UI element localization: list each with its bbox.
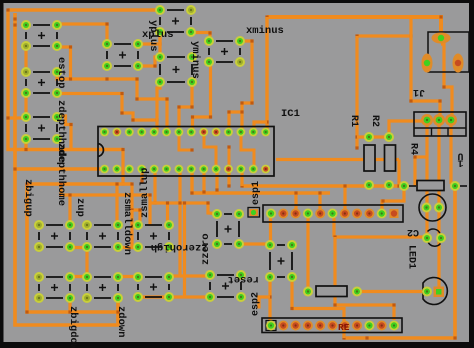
push button S1 estop (21, 20, 62, 51)
wire IC internal (204, 132, 216, 169)
wire IC stub (215, 169, 218, 190)
wire long drop (178, 203, 181, 276)
resistor R3 (303, 286, 362, 297)
connector J1 (422, 32, 470, 73)
junction (453, 336, 456, 339)
wire left rail 3 (27, 184, 118, 312)
wire link (169, 295, 210, 298)
svg-text:R1: R1 (348, 115, 359, 127)
junction (209, 115, 212, 118)
svg-text:IC1: IC1 (281, 108, 300, 120)
svg-text:zup: zup (74, 198, 86, 217)
push button S9 zup (82, 220, 123, 252)
wire chain (85, 248, 88, 277)
junction (355, 34, 358, 37)
junction (442, 85, 445, 88)
junction (158, 42, 161, 45)
wire to IC pin (179, 82, 192, 132)
wire stub to pad (8, 116, 26, 119)
svg-text:yplus: yplus (147, 20, 159, 52)
resistor R2 (384, 132, 396, 190)
wire to RE header (335, 237, 394, 320)
wire drop to rail (121, 150, 124, 185)
wire top rail to J1 (267, 17, 441, 36)
wire esp1 stub (294, 193, 297, 209)
wire to IC pin (193, 62, 211, 132)
junction (121, 148, 124, 151)
junction (265, 120, 268, 123)
push button S2 (21, 67, 62, 98)
svg-text:xminus: xminus (246, 25, 284, 37)
junction (105, 22, 108, 25)
IC IC1 DIP-28 outline (98, 127, 274, 177)
wire to C3 (335, 235, 425, 238)
wire estop to xplus (57, 24, 107, 44)
junction (413, 155, 416, 158)
push button S7 xminus (204, 36, 245, 67)
wire left rail under IC (8, 10, 123, 150)
junction (268, 295, 271, 298)
junction (227, 110, 230, 113)
junction (202, 190, 205, 193)
wire link (138, 295, 169, 298)
wire IC internal (241, 135, 254, 169)
push button S11 zzerohigh (212, 209, 244, 249)
junction (409, 99, 412, 102)
wire xplus-yplus (138, 33, 160, 44)
wire to IC pin (57, 74, 167, 132)
wire to esp1 (382, 186, 404, 209)
junction (240, 110, 243, 113)
wire pad chain (24, 94, 27, 117)
junction (140, 179, 143, 182)
junction (120, 92, 123, 95)
header ESP1 (248, 205, 403, 222)
junction (208, 31, 211, 34)
junction (183, 201, 186, 204)
junction (120, 111, 123, 114)
junction (166, 201, 169, 204)
wire U1 pin1 to C2 C3 (425, 121, 428, 238)
junction (13, 167, 16, 170)
junction (392, 303, 395, 306)
svg-text:LED1: LED1 (406, 245, 417, 269)
wire R3 to LED1 (357, 290, 424, 293)
junction (177, 105, 180, 108)
junction (402, 184, 405, 187)
junction (355, 146, 358, 149)
junction (138, 208, 141, 211)
junction (153, 64, 156, 67)
LED LED1 (422, 278, 447, 305)
wire drop (115, 184, 118, 225)
R4 left lead tick (409, 185, 416, 187)
wire esp1 stub (318, 193, 321, 209)
junction (25, 310, 28, 313)
junction (190, 148, 193, 151)
capacitor C2 (419, 194, 446, 221)
wire esp btn to RE pin1 (268, 277, 271, 322)
junction (343, 184, 346, 187)
junction (294, 191, 297, 194)
junction (365, 336, 368, 339)
wire xminus to IC (240, 41, 252, 132)
junction (318, 191, 321, 194)
junction (13, 17, 16, 20)
wire link (70, 275, 87, 278)
svg-text:zbigdow: zbigdow (67, 306, 79, 348)
wire (357, 34, 411, 37)
junction (6, 8, 9, 11)
wire stub (259, 297, 270, 309)
push button S10 zsmallup (133, 220, 174, 252)
wire J1 to U1 pin3 (441, 44, 452, 120)
R4 lead tick (460, 185, 467, 187)
svg-text:C2: C2 (407, 226, 419, 237)
junction (165, 97, 168, 100)
junction (342, 336, 345, 339)
junction (240, 184, 243, 187)
wire R1 R2 tops (357, 135, 389, 138)
junction (215, 188, 218, 191)
junction (153, 201, 156, 204)
junction (121, 182, 124, 185)
svg-text:esp2: esp2 (251, 292, 262, 316)
wire esp1 stub down (332, 218, 335, 237)
wire (229, 112, 242, 132)
wire R4 feed (413, 157, 416, 186)
junction (69, 123, 72, 126)
push button S12 zbigdown (34, 272, 75, 303)
junction (178, 201, 181, 204)
wire IC internal (179, 132, 192, 150)
push button S4 xplus (102, 39, 143, 71)
svg-text:zdepthhome: zdepthhome (55, 143, 67, 206)
junction (6, 116, 9, 119)
wire rail y193 (192, 169, 330, 193)
junction (227, 184, 230, 187)
junction (397, 184, 400, 187)
junction (68, 193, 71, 196)
svg-text:zdown: zdown (115, 306, 127, 338)
wire IC stub (140, 169, 143, 181)
wire pad chain (24, 47, 27, 72)
junction (333, 303, 336, 306)
wire IC stub (227, 169, 230, 186)
wire IC stub (178, 169, 181, 203)
wire to IC pin (57, 94, 157, 121)
push button S14 zsmalldown (133, 272, 174, 302)
wire (57, 47, 71, 79)
resistor R1 (364, 132, 375, 190)
resistor R4 (399, 181, 460, 192)
wire right+bottom rail (344, 186, 455, 338)
wire link (70, 246, 87, 249)
junction (116, 310, 119, 313)
regulator U1 (414, 112, 466, 136)
wire rail left (61, 195, 150, 226)
junction (131, 118, 134, 121)
push button S15 reset (205, 270, 246, 302)
wire drop (132, 184, 140, 225)
wire drop to IC pin (265, 17, 268, 132)
junction (439, 15, 442, 18)
wire to bottom rail (292, 309, 344, 339)
wire link (59, 184, 62, 195)
wire long drop (183, 203, 186, 297)
junction (409, 34, 412, 37)
wire to IC pin (240, 169, 243, 186)
svg-text:zzerohigh: zzerohigh (151, 241, 208, 253)
junction (438, 99, 441, 102)
wire drop zsmalldown (132, 210, 138, 247)
svg-text:reset: reset (227, 273, 259, 285)
junction (69, 45, 72, 48)
svg-text:zbigup: zbigup (22, 179, 34, 217)
junction (130, 208, 133, 211)
junction (148, 193, 151, 196)
wire (239, 242, 267, 245)
wire esp1 pin1 to esp btn (269, 217, 272, 245)
wire R2 to U1 pin1 (389, 121, 427, 134)
junction (69, 77, 72, 80)
svg-text:yminus: yminus (189, 41, 201, 79)
junction (68, 310, 71, 313)
wire left rail 2 (15, 13, 118, 325)
wire stub (68, 298, 71, 312)
junction (250, 101, 253, 104)
wire drop (397, 160, 400, 187)
wire U1 pin2 to LED1 (437, 120, 440, 290)
junction (13, 23, 16, 26)
push button S5 yplus (155, 5, 196, 37)
junction (59, 182, 62, 185)
wire esp1 to R3 (306, 217, 309, 287)
junction (59, 193, 62, 196)
wire to yminus btn (138, 57, 161, 66)
wire rail y184 (27, 182, 132, 185)
svg-text:R4: R4 (408, 143, 419, 155)
push button S16 esp (265, 240, 297, 282)
junction (355, 135, 358, 138)
header ESP2 (RE) (262, 318, 402, 333)
svg-text:J1: J1 (413, 86, 425, 97)
wire esp1 stub (343, 186, 346, 209)
junction (155, 118, 158, 121)
wire R feed drop (355, 36, 358, 148)
junction (206, 201, 209, 204)
junction (130, 182, 133, 185)
wire to U1 pin2 (411, 17, 440, 120)
wire U1 pin3 down (451, 120, 455, 186)
wire link (118, 275, 138, 278)
junction (290, 307, 293, 310)
junction (240, 101, 243, 104)
junction (24, 148, 27, 151)
junction (135, 97, 138, 100)
svg-text:zsmalldown: zsmalldown (121, 192, 133, 255)
wire to IC pin (157, 82, 160, 132)
push button S13 zdown (82, 272, 123, 303)
wire yplus to xminus btn (191, 33, 210, 42)
junction (190, 105, 193, 108)
junction (25, 182, 28, 185)
wire rail y169 to IC pin1 (15, 167, 104, 170)
IC1 pads bottom row (100, 165, 270, 174)
junction (381, 199, 384, 202)
wire link (118, 246, 138, 249)
wire (254, 122, 267, 132)
IC1 pads top row (100, 128, 270, 137)
svg-text:esp1: esp1 (251, 181, 262, 205)
push button S3 (21, 112, 62, 144)
svg-text:R2: R2 (369, 115, 380, 127)
wire R4 feed (415, 155, 427, 158)
wire IC stub (202, 169, 205, 192)
push button S6 yminus (155, 52, 197, 87)
junction (115, 182, 118, 185)
svg-text:RE: RE (338, 322, 350, 333)
wire staircase (57, 116, 71, 150)
wire under resistors (276, 158, 399, 161)
wire rail y186 (242, 184, 404, 187)
wire (290, 277, 293, 309)
junction (250, 39, 253, 42)
wire top-left rail (8, 8, 160, 11)
junction (265, 15, 268, 18)
junction (190, 191, 193, 194)
junction (105, 77, 108, 80)
svg-text:zsmallup: zsmallup (139, 168, 151, 218)
wire rail y203 to zzerohigh (150, 203, 216, 214)
svg-text:estop: estop (55, 57, 67, 89)
junction (227, 145, 230, 148)
wire (158, 32, 161, 57)
wire link (169, 274, 210, 277)
junction (191, 115, 194, 118)
junction (135, 77, 138, 80)
svg-text:1: 1 (457, 157, 463, 168)
wire drop (68, 195, 71, 225)
wire drop to btn (166, 203, 169, 225)
wire IC internal (228, 147, 231, 169)
junction (333, 235, 336, 238)
capacitor C3 (422, 229, 446, 246)
wire IC stub (153, 169, 156, 203)
wire pad chain (24, 139, 27, 150)
push button S8 zbigup (34, 220, 75, 252)
